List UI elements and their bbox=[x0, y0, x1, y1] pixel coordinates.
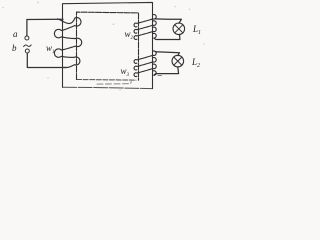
label b bbox=[12, 44, 17, 53]
lamp L1 bbox=[173, 23, 185, 35]
wire w2 top to lamp L1 bbox=[155, 19, 182, 23]
wire w3 top to lamp L2 bbox=[155, 52, 179, 56]
terminal b bbox=[25, 49, 29, 53]
stray dash-dot line near bottom (scan artifact in original) bbox=[97, 82, 131, 85]
coil w2 bbox=[134, 15, 156, 40]
coil w3 bbox=[134, 51, 156, 77]
core outer rectangle bottom edge bbox=[63, 87, 153, 88]
label w3 bbox=[121, 67, 130, 78]
core inner rectangle (window) bbox=[77, 12, 139, 80]
label L2 bbox=[192, 58, 200, 69]
coil w1 bbox=[54, 18, 81, 68]
dash fragment right of L2 bottom wire bbox=[158, 75, 162, 77]
wire from a to coil w1 top bbox=[27, 19, 63, 36]
wire w2 bottom to lamp L1 bbox=[156, 34, 180, 39]
core inner rectangle bottom edge bbox=[77, 79, 137, 82]
label w1 bbox=[46, 44, 55, 55]
paper specks bbox=[2, 2, 204, 91]
lamp L2 bbox=[172, 55, 184, 67]
wire from b to coil w1 bottom bbox=[27, 53, 66, 67]
AC tilde bbox=[24, 45, 32, 47]
label L1 bbox=[193, 25, 201, 36]
terminal a bbox=[25, 36, 29, 40]
label w2 bbox=[125, 30, 134, 41]
core outer rectangle (top, left, right edges) bbox=[63, 2, 153, 88]
wire w3 bottom to lamp L2 bbox=[156, 67, 179, 73]
label a bbox=[13, 30, 18, 39]
